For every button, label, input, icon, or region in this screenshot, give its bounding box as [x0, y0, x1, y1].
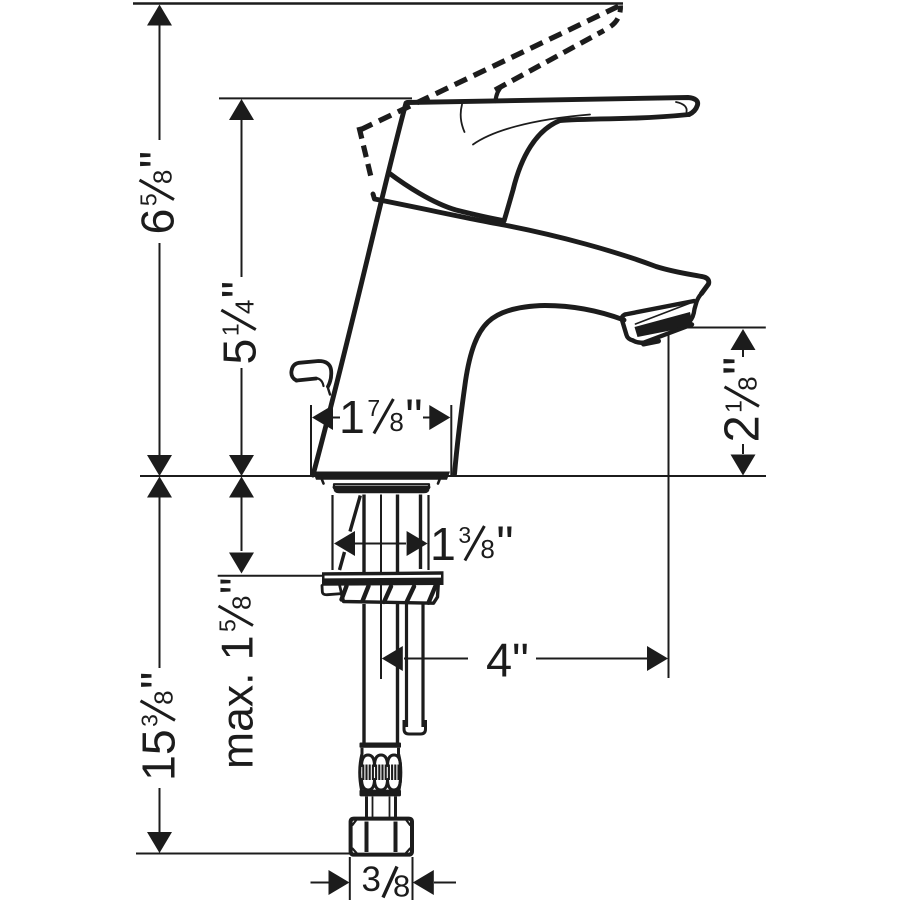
dim 1 3/8 arrows	[334, 531, 355, 556]
label 2 1/8	[713, 357, 770, 443]
svg-text:1: 1	[721, 400, 747, 413]
dim max 1 5/8 arrow top	[229, 477, 254, 498]
svg-text:6: 6	[132, 209, 184, 235]
braid top scallops	[362, 755, 401, 766]
svg-text:": "	[131, 151, 185, 168]
svg-text:3: 3	[362, 860, 381, 899]
dim max 1 5/8 arrow bottom	[229, 553, 254, 574]
second hose left wall	[405, 604, 408, 727]
top reference line (handle raised height)	[133, 2, 623, 5]
svg-text:max. 1: max. 1	[214, 635, 263, 769]
supply hose right wall	[396, 495, 399, 745]
dim 6 5/8 vertical line	[159, 25, 161, 140]
svg-text:8: 8	[733, 376, 763, 390]
svg-text:": "	[132, 672, 186, 689]
braid hatch	[362, 765, 364, 781]
braid bottom scallops	[362, 780, 401, 791]
braided hose top collar	[360, 743, 402, 748]
dim 3/8 arrows	[311, 882, 329, 884]
dim 3/8 extension lines	[349, 857, 351, 900]
handle blade underside and neck sweep	[504, 115, 689, 222]
body interior thin curve 2	[473, 115, 590, 145]
handle root edge	[389, 173, 503, 221]
svg-text:7: 7	[367, 395, 380, 421]
svg-text:1: 1	[339, 391, 365, 443]
raised handle dashed tip cap	[607, 6, 621, 29]
svg-text:3: 3	[137, 714, 163, 727]
supply hose left wall	[362, 495, 365, 745]
dim max 1 5/8 vertical line	[241, 497, 243, 551]
escutcheon ring	[334, 484, 429, 488]
extension line spout reach x=668	[668, 334, 670, 679]
svg-text:": "	[211, 577, 263, 594]
svg-text:3: 3	[458, 522, 471, 548]
dim 6 5/8 arrow top	[147, 5, 172, 26]
handle top edge with tip	[407, 98, 698, 115]
dim 2 1/8 arrow top	[731, 329, 756, 350]
body interior thin curve 1	[461, 105, 465, 133]
spout top edge	[373, 194, 709, 294]
svg-text:": "	[212, 281, 266, 298]
svg-text:15: 15	[133, 729, 185, 781]
countertop line	[140, 475, 766, 477]
svg-text:8: 8	[480, 534, 494, 564]
svg-text:8: 8	[148, 170, 178, 184]
bottom reference line (hose end)	[136, 853, 352, 855]
shank left wall	[331, 495, 333, 570]
handle pivot stub	[496, 86, 503, 102]
dim 2 1/8 vertical line	[742, 350, 744, 357]
shank right wall	[427, 495, 429, 570]
center axis line	[380, 495, 382, 680]
dim 2 1/8 arrow bottom	[731, 455, 756, 476]
svg-text:2: 2	[716, 415, 770, 442]
dim 4in line	[404, 658, 468, 660]
svg-text:5: 5	[215, 619, 241, 632]
svg-text:8: 8	[227, 596, 257, 610]
second hose end cap	[404, 720, 426, 734]
mounting flange top plate	[322, 571, 444, 586]
threaded rod diagonal	[340, 496, 361, 571]
svg-text:": "	[713, 357, 770, 375]
dim 6 5/8 arrow bottom	[147, 455, 172, 476]
drain pull-rod knob	[291, 361, 331, 395]
svg-text:": "	[405, 390, 422, 444]
svg-text:": "	[496, 517, 513, 571]
label max 1 5/8	[211, 577, 263, 769]
aerator tilted block	[622, 294, 702, 345]
extension line spout height (2 1/8)	[675, 327, 766, 329]
dim 5 1/4 arrow top	[229, 99, 254, 120]
raised handle dashed bottom	[495, 31, 604, 91]
braided hose bulge outline	[360, 755, 401, 791]
dim 15 3/8 vertical line	[159, 496, 161, 668]
faucet body left edge	[313, 103, 406, 475]
compression nut 3/8	[351, 819, 412, 855]
dim 15 3/8 arrow bottom	[147, 832, 172, 853]
svg-text:8: 8	[389, 407, 403, 437]
svg-text:1: 1	[430, 518, 456, 570]
raised handle dashed top	[360, 5, 621, 130]
spout underside / body right edge	[455, 306, 625, 475]
dim 15 3/8 arrow top	[147, 477, 172, 498]
connector tube	[367, 797, 396, 819]
shank extra wall line	[419, 495, 422, 570]
handle tip inner line	[676, 102, 687, 112]
mounting flange serrated cone	[342, 585, 439, 603]
faucet base bar on countertop	[313, 472, 450, 480]
dim 5 1/4 arrow bottom	[229, 455, 254, 476]
dim 5 1/4 vertical line	[241, 120, 243, 277]
dim 4in arrows	[382, 646, 403, 671]
svg-text:4": 4"	[486, 634, 529, 687]
label 6 5/8	[131, 151, 185, 235]
svg-text:5: 5	[136, 193, 162, 206]
svg-text:1: 1	[217, 323, 243, 336]
extension line max depth (flange)	[218, 575, 322, 577]
label 1 7/8	[339, 390, 423, 444]
label 5 1/4	[212, 281, 266, 365]
svg-text:5: 5	[213, 339, 265, 365]
mounting flange left ledge	[322, 586, 342, 595]
escutcheon step	[322, 480, 440, 484]
label 15 3/8	[132, 672, 186, 781]
svg-text:8: 8	[393, 869, 410, 900]
reference line at handle top (5 1/4 height)	[219, 97, 412, 99]
label 1 3/8	[430, 517, 514, 571]
braided hose bottom collar	[360, 790, 402, 797]
svg-text:8: 8	[149, 690, 179, 704]
second hose right wall	[421, 604, 424, 727]
svg-text:4: 4	[229, 300, 259, 314]
dim 1 7/8 extension lines	[310, 405, 312, 475]
dim 1 7/8 arrows	[312, 405, 333, 430]
raised handle dashed left edge	[359, 127, 371, 177]
